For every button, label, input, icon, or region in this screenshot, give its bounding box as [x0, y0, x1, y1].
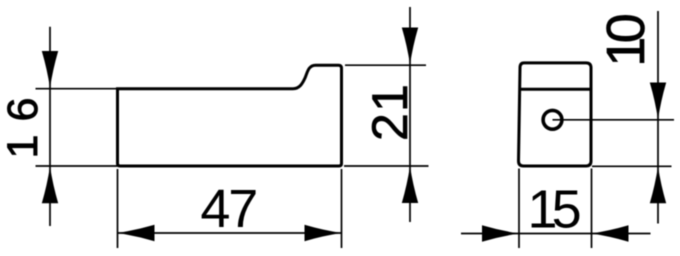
svg-text:15: 15	[528, 180, 580, 240]
svg-text:21: 21	[362, 83, 418, 141]
svg-text:16: 16	[0, 84, 47, 158]
svg-text:10: 10	[596, 15, 656, 67]
svg-text:47: 47	[200, 179, 256, 239]
